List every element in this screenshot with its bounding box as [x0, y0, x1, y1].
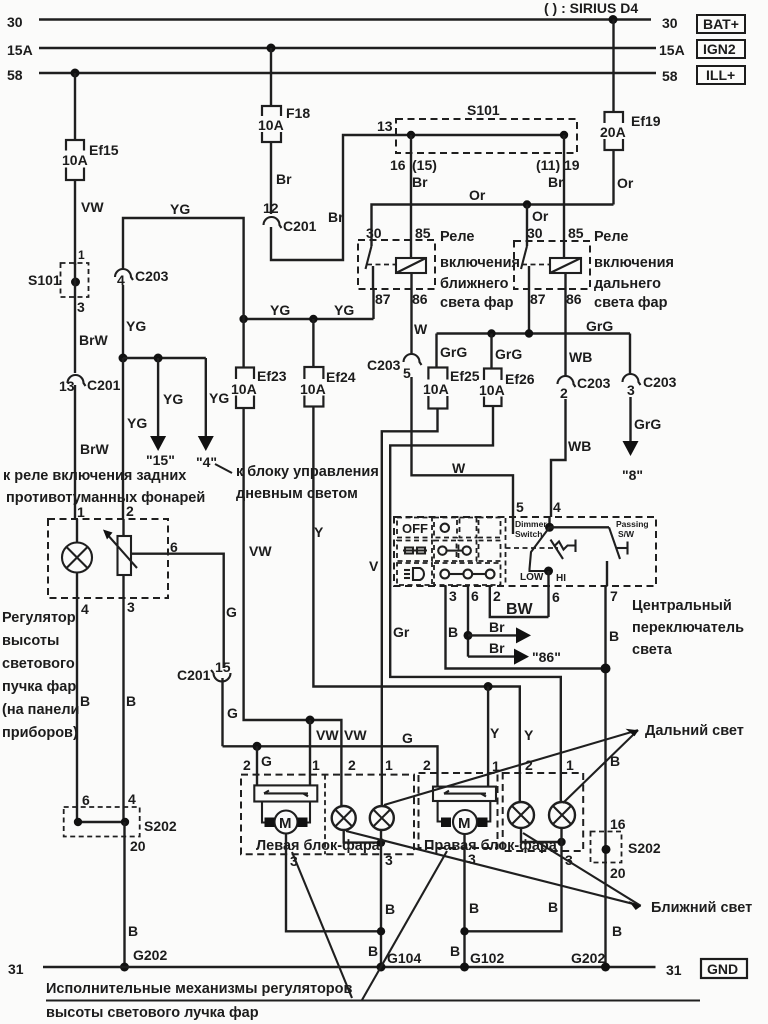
svg-text:GrG: GrG [634, 416, 661, 432]
node: junction B pin3/pin7 [601, 664, 611, 674]
svg-text:6: 6 [552, 589, 560, 605]
svg-text:4: 4 [553, 499, 561, 515]
wire YG down to regulator pin 2 [122, 358, 124, 519]
wire switch pin 3 to B junction [446, 586, 606, 669]
svg-text:6: 6 [82, 792, 90, 808]
connector C201 pin 15 [177, 659, 231, 683]
wire regulator pin2 to potentiometer [122, 519, 124, 536]
passing switch feed wire [550, 526, 610, 528]
svg-text:Y: Y [524, 727, 534, 743]
svg-text:B: B [612, 923, 622, 939]
wire to "15" with arrow [150, 358, 166, 451]
relay L actuating dashed link [367, 264, 396, 266]
wire C203-2 to dimmer pin 4, WB [551, 399, 566, 517]
wire GrG right corner to C203-3 [629, 334, 631, 375]
svg-text:31: 31 [666, 962, 682, 978]
svg-text:F18: F18 [286, 105, 310, 121]
svg-text:света фар: света фар [440, 295, 514, 311]
dimmer arm to LOW/HI [530, 527, 550, 571]
passing switch caption [616, 519, 649, 539]
left motor ground wire, B [286, 834, 381, 932]
wire inside S101 [396, 134, 564, 136]
YG riser and bridge to C203-4 [123, 218, 244, 319]
svg-text:3: 3 [385, 852, 393, 868]
right high beam lamp [549, 802, 575, 828]
splice S202 (left) [64, 807, 140, 837]
svg-text:Br: Br [548, 174, 564, 190]
svg-text:"15": "15" [146, 452, 175, 468]
svg-text:10A: 10A [479, 382, 505, 398]
wire bus58 to fuse Ef15 [74, 73, 76, 140]
switch grid row3 headlight icon cell [397, 563, 432, 585]
wire switch pin 7 down to ground G202, B [604, 586, 606, 967]
left headlamp internal dashed divider [324, 775, 326, 855]
node: junction G202 left on bus 31 [120, 963, 129, 972]
svg-text:WB: WB [568, 438, 591, 454]
svg-text:2: 2 [126, 503, 134, 519]
regulator caption text [2, 610, 79, 741]
dimmer momentary contact symbol [551, 540, 576, 560]
connector C203 pin 2 [558, 375, 611, 401]
wire to "4" with arrow [198, 358, 214, 451]
svg-text:2: 2 [525, 757, 533, 773]
node: junction left grounds [377, 927, 385, 935]
wire relay L 86 down to C203-5, W [410, 273, 412, 354]
svg-text:G102: G102 [470, 950, 504, 966]
fuse Ef15 10A [59, 140, 91, 180]
svg-text:6: 6 [471, 588, 479, 604]
node: junction G left [253, 742, 262, 751]
svg-text:"8": "8" [622, 467, 643, 483]
svg-text:BAT+: BAT+ [703, 16, 739, 32]
lamp symbol (illumination lamp) in regulator [62, 543, 92, 573]
left low beam lamp [332, 806, 356, 830]
fuse Ef19 20A [598, 112, 630, 150]
wire S101-16 down to low beam relay pin 85 [410, 135, 412, 258]
svg-text:19: 19 [564, 157, 580, 173]
svg-text:Gr: Gr [393, 624, 410, 640]
svg-text:12: 12 [263, 200, 279, 216]
svg-text:10A: 10A [258, 117, 284, 133]
relay R coil [550, 258, 581, 273]
switch grid row2 contact cells [434, 541, 501, 562]
svg-text:Ef24: Ef24 [326, 369, 356, 385]
svg-text:YG: YG [163, 391, 183, 407]
node: junction ground G102 [460, 963, 469, 972]
svg-text:2: 2 [243, 757, 251, 773]
wire regulator pin4 down to S202, B [76, 598, 78, 822]
svg-text:30: 30 [527, 225, 543, 241]
svg-text:Ef15: Ef15 [89, 142, 119, 158]
svg-text:B: B [126, 693, 136, 709]
svg-text:C203: C203 [577, 375, 611, 391]
wire Ef19 down to Or line [612, 150, 614, 205]
left lamp ground wire, B [380, 830, 382, 967]
svg-text:Or: Or [532, 208, 549, 224]
switch internal dashed mid line [506, 547, 559, 549]
wire relay R 87 to GrG line [528, 289, 530, 334]
svg-text:30: 30 [662, 15, 678, 31]
svg-text:светового: светового [2, 656, 75, 672]
svg-text:10A: 10A [423, 381, 449, 397]
svg-text:1: 1 [78, 248, 85, 262]
svg-text:OFF: OFF [402, 521, 428, 536]
svg-text:(15): (15) [412, 157, 437, 173]
svg-text:света: света [632, 642, 673, 658]
svg-text:B: B [609, 628, 619, 644]
left high beam lamp [370, 806, 394, 830]
svg-text:HI: HI [556, 573, 566, 584]
relay L contact to pin 87 [372, 266, 374, 289]
svg-text:ближнего: ближнего [440, 276, 509, 292]
switch grid row2 parking light icon cell [397, 541, 432, 562]
svg-text:G202: G202 [133, 947, 167, 963]
svg-text:3: 3 [127, 599, 135, 615]
leader to DRL note [215, 464, 232, 473]
svg-text:YG: YG [334, 302, 354, 318]
svg-text:BW: BW [506, 601, 534, 618]
wire G to left actuator pin 2 [256, 746, 258, 785]
svg-text:Br: Br [328, 209, 344, 225]
node: junction right grounds [460, 927, 468, 935]
svg-text:GrG: GrG [440, 344, 467, 360]
node: junction Y [484, 682, 493, 691]
right actuator side links [438, 801, 491, 822]
svg-text:B: B [448, 624, 458, 640]
svg-text:YG: YG [126, 318, 146, 334]
svg-text:1: 1 [77, 504, 85, 520]
svg-text:дальнего: дальнего [594, 276, 661, 292]
svg-text:S202: S202 [628, 840, 661, 856]
svg-text:(на панели: (на панели [2, 702, 79, 718]
node: YG branch junction [119, 354, 128, 363]
relay R caption [594, 229, 674, 311]
svg-text:15: 15 [215, 659, 231, 675]
wire Ef15 to S101, VW [74, 180, 76, 265]
svg-text:Реле: Реле [594, 229, 628, 245]
svg-text:7: 7 [610, 588, 618, 604]
wire Ef26 jog to right high beam, Gr [390, 406, 561, 802]
relay R switch contact [521, 246, 527, 269]
svg-text:13: 13 [377, 118, 393, 134]
svg-text:высоты: высоты [2, 633, 59, 649]
potentiometer (beam height adjuster) [103, 530, 137, 576]
connector C203 pin 3 [623, 374, 677, 398]
node: junction VW [306, 716, 315, 725]
GrG distribution wire [437, 332, 631, 334]
wire Ef23 to VW distribution [244, 408, 342, 806]
connector C201 pin 13 [59, 375, 121, 394]
node: junction on bus 15A at F18 [267, 44, 276, 53]
wire passing contact to pin 7 [606, 561, 608, 586]
svg-text:C201: C201 [283, 218, 317, 234]
left lamps common wire to pin 3 [344, 830, 381, 843]
svg-text:W: W [452, 460, 466, 476]
node: junction G202 right on bus 31 [601, 963, 610, 972]
terminal box BAT+ [697, 15, 745, 33]
svg-text:3: 3 [627, 382, 635, 398]
svg-text:16: 16 [390, 157, 406, 173]
svg-text:VW: VW [344, 727, 367, 743]
switch grid row1 cell3 [460, 518, 477, 538]
svg-text:13: 13 [59, 378, 75, 394]
wire lamp to pin 4 [76, 573, 78, 599]
svg-text:Правая блок-фара: Правая блок-фара [424, 838, 558, 854]
leader lines to low beam lamps [346, 831, 641, 910]
svg-text:Y: Y [314, 524, 324, 540]
bus wire 31 [43, 966, 656, 968]
wire bus30 down to fuse Ef19 [612, 20, 614, 113]
wire YG junction down to fuse Ef23 [242, 319, 244, 368]
node: S101 junction pin19 [560, 131, 568, 139]
svg-text:IGN2: IGN2 [703, 41, 736, 57]
svg-text:YG: YG [270, 302, 290, 318]
svg-text:G: G [402, 730, 413, 746]
svg-text:B: B [80, 693, 90, 709]
connector C203 pin 4 [115, 268, 169, 288]
svg-text:"4": "4" [196, 454, 217, 470]
svg-text:Passing: Passing [616, 519, 649, 529]
svg-text:приборов): приборов) [2, 725, 78, 741]
svg-text:S202: S202 [144, 818, 177, 834]
node: junction ground G104 [377, 963, 386, 972]
svg-text:C201: C201 [177, 667, 211, 683]
Or distribution wire [372, 205, 614, 247]
svg-text:B: B [450, 943, 460, 959]
svg-text:LOW: LOW [520, 572, 544, 583]
svg-text:B: B [385, 901, 395, 917]
dimmer switch caption [515, 519, 547, 539]
svg-text:15A: 15A [659, 42, 685, 58]
svg-text:30: 30 [7, 14, 23, 30]
svg-text:15A: 15A [7, 42, 33, 58]
svg-text:86: 86 [412, 291, 428, 307]
svg-text:Ef25: Ef25 [450, 368, 480, 384]
svg-text:Ближний свет: Ближний свет [651, 900, 752, 916]
wire relay L 87 to YG line [372, 289, 374, 319]
svg-text:2: 2 [348, 757, 356, 773]
svg-text:к реле включения задних: к реле включения задних [3, 468, 186, 484]
caption rule line [46, 999, 700, 1001]
splice S101 (left) [28, 248, 89, 315]
svg-text:4: 4 [81, 601, 89, 617]
wire S101-19 down to high beam relay pin 85 [563, 135, 565, 258]
svg-text:( ) : SIRIUS D4: ( ) : SIRIUS D4 [544, 0, 638, 16]
node: S101 junction pin16 [407, 131, 415, 139]
svg-text:C203: C203 [367, 357, 401, 373]
wire Y to right leveling actuator [487, 687, 489, 787]
wire C201-12 jog to S101 pin 13, Br [271, 135, 396, 260]
left headlamp unit dashed box [241, 775, 414, 855]
svg-text:Ef19: Ef19 [631, 113, 661, 129]
relay R actuating dashed link [522, 264, 550, 266]
svg-text:пучка фар: пучка фар [2, 679, 76, 695]
svg-text:2: 2 [560, 385, 568, 401]
svg-text:G: G [261, 753, 272, 769]
svg-text:высоты светового лучка фар: высоты светового лучка фар [46, 1005, 259, 1021]
svg-text:света фар: света фар [594, 295, 668, 311]
wire GrG to fuse Ef26 [490, 334, 492, 369]
svg-text:S101: S101 [28, 272, 61, 288]
node: HI contact [544, 567, 553, 576]
svg-text:дневным светом: дневным светом [236, 486, 358, 502]
right actuator motor M [441, 810, 488, 834]
svg-text:C203: C203 [643, 374, 677, 390]
svg-text:C203: C203 [135, 268, 169, 284]
terminal box GND [701, 959, 747, 978]
wire C201-13 down to leveling regulator pin 1, BrW [74, 385, 76, 519]
node: junction on bus 30 at Ef19 [609, 15, 618, 24]
wire VW to left leveling actuator [309, 720, 311, 785]
wire Ef25 to left high beam, V [382, 409, 438, 807]
svg-text:WB: WB [569, 349, 592, 365]
fuse Ef23 10A [229, 368, 261, 409]
svg-text:B: B [548, 899, 558, 915]
svg-text:10A: 10A [231, 381, 257, 397]
svg-text:Реле: Реле [440, 229, 474, 245]
connector C203 pin 5 [367, 354, 422, 381]
right low beam lamp [508, 802, 534, 828]
node: junction left lamps [377, 838, 385, 846]
node: junction right lamps [557, 838, 565, 846]
BW jumper pin2 to dimmer pin6 [490, 586, 549, 617]
node: junction arrow 15 [154, 354, 163, 363]
fuse Ef25 10A [421, 368, 454, 409]
bus wire 30 [39, 18, 651, 20]
dimmer pin 5 stub [512, 517, 514, 534]
connector S101 dashed box (top) [396, 119, 577, 153]
terminal box IGN2 [697, 40, 745, 58]
wire YG junction down to fuse Ef24 [312, 319, 314, 367]
svg-text:4: 4 [128, 791, 136, 807]
switch internal dashed divider [505, 518, 507, 585]
svg-text:включения: включения [594, 255, 674, 271]
svg-text:Br: Br [412, 174, 428, 190]
relay L caption [440, 229, 520, 311]
terminal box ILL+ [697, 66, 745, 84]
G distribution wire to leveling motors [223, 746, 438, 786]
high beam relay dashed box [514, 241, 590, 289]
wire Ef24 to Y distribution [313, 407, 519, 803]
svg-text:противотуманных фонарей: противотуманных фонарей [6, 490, 205, 506]
svg-text:3: 3 [449, 588, 457, 604]
svg-text:GrG: GrG [586, 318, 613, 334]
svg-text:переключатель: переключатель [632, 620, 744, 636]
svg-text:B: B [368, 943, 378, 959]
svg-text:G: G [227, 705, 238, 721]
svg-text:31: 31 [8, 961, 24, 977]
svg-text:V: V [369, 558, 379, 574]
node: junction GrG at relay R 87 [525, 329, 533, 337]
YG branch wire to arrows [123, 357, 206, 359]
svg-text:1: 1 [385, 757, 393, 773]
central light switch dashed box [394, 517, 656, 586]
relay R contact to pin 87 [528, 266, 530, 289]
node: junction GrG at Ef26 [487, 329, 495, 337]
svg-text:W: W [414, 321, 428, 337]
svg-text:2: 2 [493, 588, 501, 604]
Br arrow 2 to "86" [468, 649, 529, 665]
svg-text:5: 5 [516, 499, 524, 515]
svg-text:2: 2 [423, 757, 431, 773]
svg-text:20: 20 [610, 865, 626, 881]
node: junction YG at Ef24 [309, 315, 317, 323]
wire switch pin 6 down [467, 586, 469, 657]
right leveling actuator dashed box [419, 773, 498, 848]
svg-text:Исполнительные механизмы регул: Исполнительные механизмы регуляторов [46, 981, 353, 997]
svg-text:Центральный: Центральный [632, 598, 732, 614]
wire regulator pin3 down to S202, B [122, 598, 124, 822]
svg-text:20: 20 [130, 838, 146, 854]
svg-text:3: 3 [77, 299, 85, 315]
svg-text:GrG: GrG [495, 346, 522, 362]
svg-text:VW: VW [316, 727, 339, 743]
wire S101 to C201-13, BrW [74, 263, 76, 373]
svg-text:85: 85 [568, 225, 584, 241]
wire bus15A down to fuse F18 [270, 48, 272, 106]
Br arrow 1 [468, 627, 531, 643]
switch grid row3 contact cell [434, 563, 501, 585]
svg-text:VW: VW [81, 199, 104, 215]
svg-text:30: 30 [366, 225, 382, 241]
svg-text:BrW: BrW [79, 332, 109, 348]
wire regulator pin1 to lamp [76, 519, 78, 543]
svg-text:Дальний свет: Дальний свет [645, 723, 744, 739]
switch grid row1 OFF cell [397, 518, 432, 538]
svg-text:M: M [458, 815, 471, 832]
svg-text:5: 5 [403, 365, 411, 381]
svg-text:Br: Br [489, 640, 505, 656]
svg-text:B: B [469, 900, 479, 916]
node: junction Br arrows [464, 631, 473, 640]
node: junction Or to high beam relay 30 [523, 200, 531, 208]
svg-text:к блоку управления: к блоку управления [236, 464, 379, 480]
svg-text:Ef23: Ef23 [257, 368, 287, 384]
svg-text:Or: Or [617, 175, 634, 191]
node: junction on bus 58 at Ef15 [71, 69, 80, 78]
svg-text:Or: Or [469, 187, 486, 203]
svg-text:B: B [128, 923, 138, 939]
headlamp leveling regulator dashed box [48, 519, 168, 598]
wire C203-4 down to YG junction [122, 285, 124, 358]
svg-text:YG: YG [170, 201, 190, 217]
svg-text:87: 87 [530, 291, 546, 307]
regulator pin 6 wire to G [131, 554, 224, 668]
svg-text:16: 16 [610, 816, 626, 832]
svg-text:85: 85 [415, 225, 431, 241]
svg-text:Br: Br [489, 619, 505, 635]
switch grid row1 O cell [434, 518, 457, 538]
svg-text:58: 58 [662, 68, 678, 84]
svg-text:YG: YG [209, 390, 229, 406]
YG distribution wire lower [244, 318, 374, 320]
svg-text:VW: VW [249, 543, 272, 559]
bus wire 15A [39, 47, 656, 49]
switch grid row1 cell4 [479, 518, 501, 538]
leader line to right leveling motor [362, 851, 447, 1000]
svg-text:BrW: BrW [80, 441, 110, 457]
right motor ground wire, B [463, 834, 465, 967]
svg-text:S101: S101 [467, 102, 500, 118]
fuse F18 10A [255, 106, 288, 142]
wire C201-15 down, G [221, 678, 223, 746]
svg-text:G: G [226, 604, 237, 620]
wire potentiometer to pin 3 [122, 575, 124, 598]
svg-text:Регулятор: Регулятор [2, 610, 76, 626]
svg-text:86: 86 [566, 291, 582, 307]
svg-text:10A: 10A [300, 381, 326, 397]
svg-text:ILL+: ILL+ [706, 67, 735, 83]
